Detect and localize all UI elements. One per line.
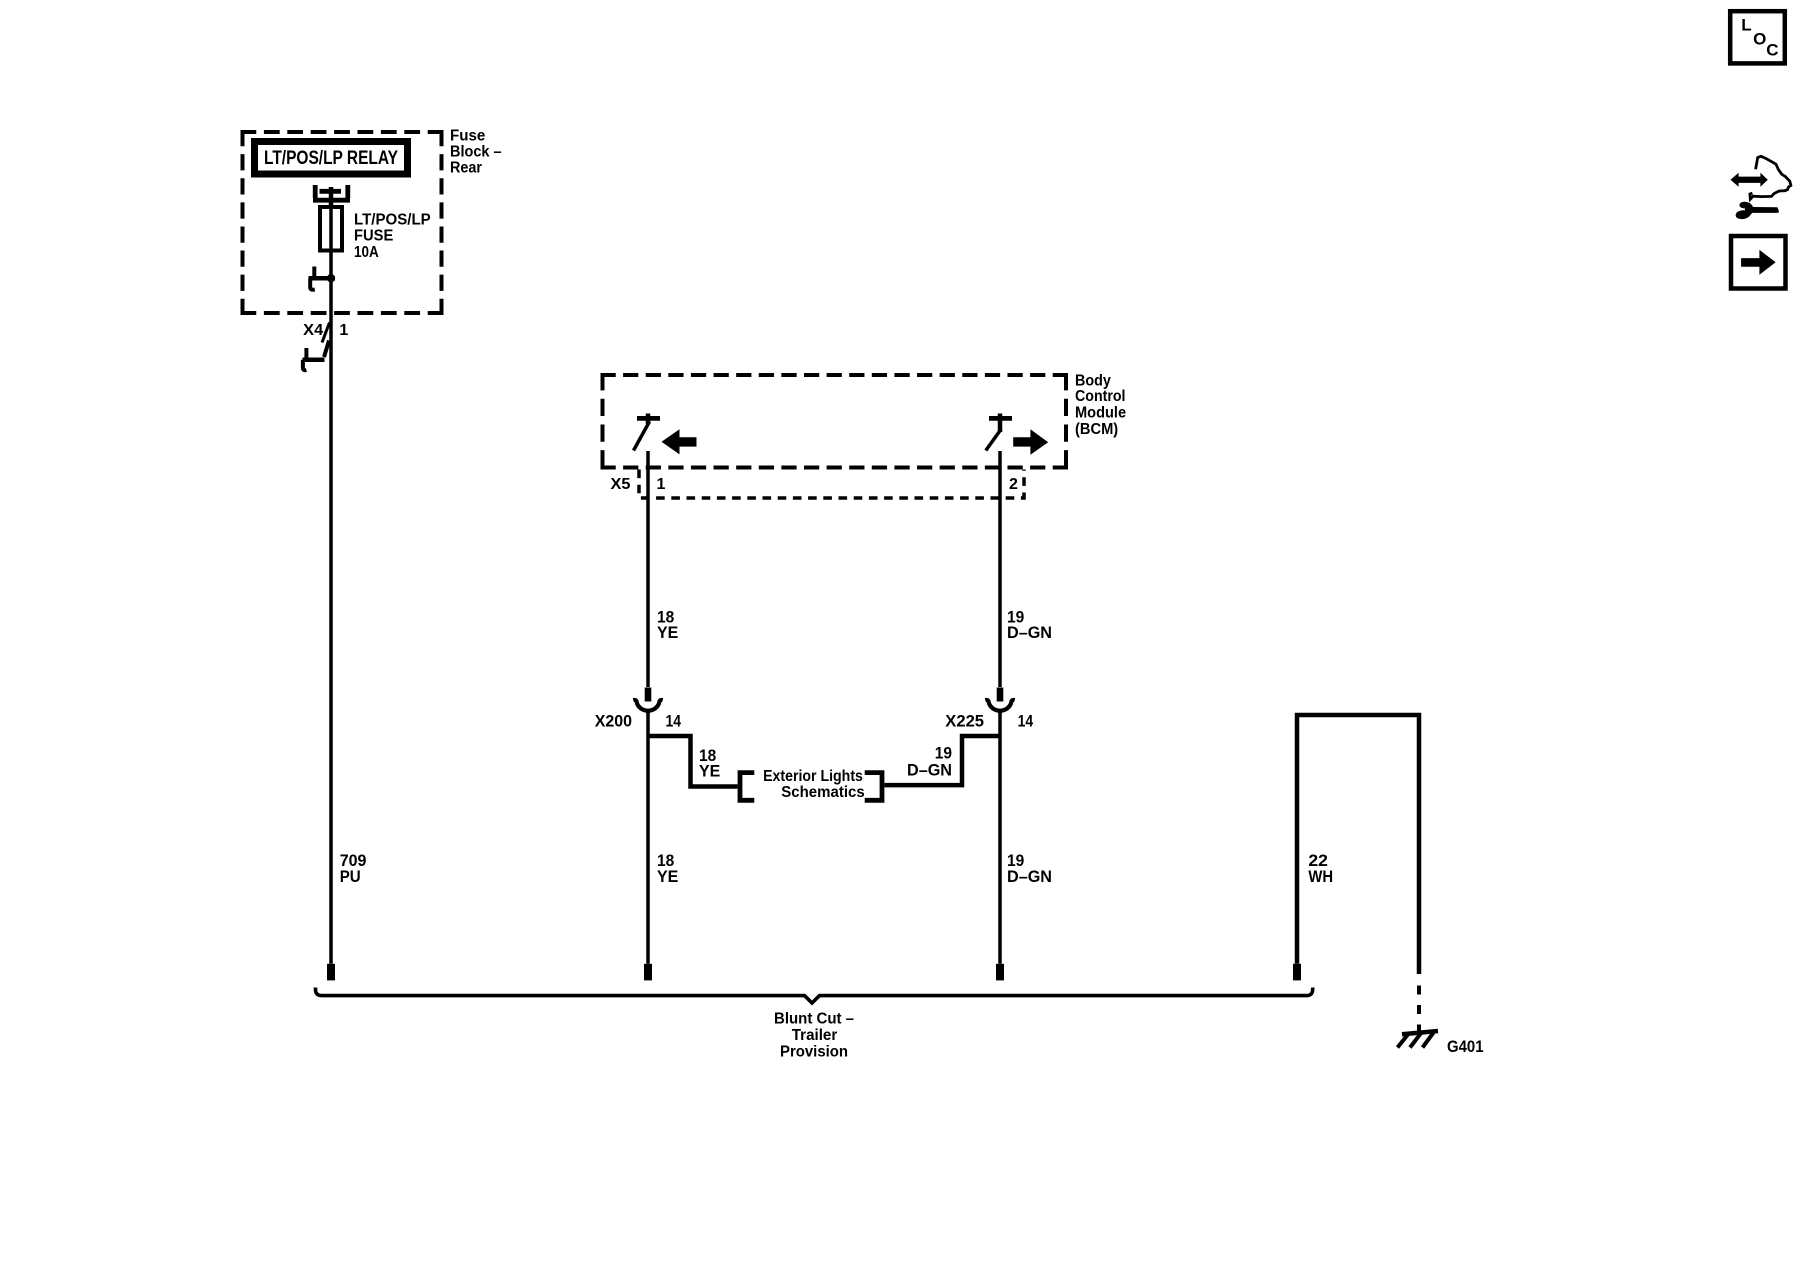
svg-text:C: C	[1766, 41, 1778, 60]
wire: 18 YE below X200 to blunt cut	[646, 712, 650, 964]
service/repair icon: wrench	[1736, 202, 1779, 219]
relay K: LT/POS/LP RELAY box	[255, 142, 408, 175]
svg-text:1: 1	[657, 476, 666, 493]
arrow (input) at BCM pin 1	[662, 429, 697, 454]
svg-text:Control: Control	[1075, 388, 1126, 405]
svg-text:D–GN: D–GN	[1007, 623, 1052, 642]
svg-text:Trailer: Trailer	[792, 1027, 838, 1044]
connector X5 dotted box	[639, 470, 1024, 499]
inline connector hook inside fuse block	[309, 267, 336, 290]
connector X4 pin 1 label and slash	[303, 322, 348, 343]
wire branch: 18 YE to Exterior Lights Schematics	[648, 736, 738, 787]
blunt cut cap on 19 D-GN wire	[996, 964, 1004, 981]
service/repair icon: double arrow	[1731, 173, 1768, 187]
svg-text:Body: Body	[1075, 372, 1111, 389]
svg-text:PU: PU	[340, 867, 361, 886]
svg-text:10A: 10A	[354, 244, 379, 261]
relay pin terminal (T-pin in U-clip)	[313, 185, 350, 208]
wire: 19 D-GN below X225 to blunt cut	[998, 712, 1002, 964]
svg-text:YE: YE	[699, 761, 720, 780]
svg-text:Exterior Lights: Exterior Lights	[763, 768, 863, 785]
svg-text:YE: YE	[657, 867, 678, 886]
fuse F: LT/POS/LP FUSE 10A	[320, 207, 431, 261]
svg-text:Fuse: Fuse	[450, 128, 485, 145]
svg-text:LT/POS/LP RELAY: LT/POS/LP RELAY	[264, 148, 398, 169]
svg-text:WH: WH	[1308, 867, 1333, 886]
arrow (output) at BCM pin 2	[1013, 429, 1048, 455]
svg-text:D–GN: D–GN	[907, 761, 952, 780]
LOC reference box icon	[1730, 11, 1785, 63]
svg-text:D–GN: D–GN	[1007, 867, 1052, 886]
svg-text:L: L	[1741, 16, 1751, 35]
label: Blunt Cut - Trailer Provision	[774, 1010, 854, 1060]
wire: 18 YE from BCM pin 1 to X200	[646, 451, 650, 687]
svg-text:Block –: Block –	[450, 144, 502, 161]
svg-text:Provision: Provision	[780, 1044, 848, 1061]
svg-text:(BCM): (BCM)	[1075, 421, 1118, 438]
body control module dashed box	[601, 373, 1069, 468]
svg-text:X225: X225	[945, 712, 984, 731]
svg-text:YE: YE	[657, 623, 678, 642]
wire: 22 WH loop to ground branch	[1297, 715, 1419, 974]
ground G401	[1398, 1025, 1439, 1048]
junction dot on wire at hook	[327, 274, 335, 282]
svg-text:G401: G401	[1447, 1037, 1484, 1056]
svg-text:14: 14	[1018, 712, 1034, 731]
fuse block label: Fuse Block - Rear	[450, 128, 502, 177]
forward/next arrow box icon	[1731, 236, 1786, 289]
svg-text:Schematics: Schematics	[781, 784, 865, 801]
wire branch: 19 D-GN from Exterior Lights Schematics to X225 wire	[885, 736, 1001, 785]
svg-text:O: O	[1753, 29, 1766, 48]
BCM label: Body Control Module (BCM)	[1075, 372, 1126, 438]
svg-text:X5: X5	[611, 476, 631, 493]
svg-text:X4: X4	[303, 322, 323, 339]
BCM pin 1 symbol	[634, 414, 661, 451]
blunt cut cap on 18 YE wire	[644, 964, 652, 981]
svg-text:FUSE: FUSE	[354, 228, 394, 245]
svg-text:X200: X200	[595, 712, 632, 731]
service/repair icon: panel outline	[1750, 156, 1791, 199]
svg-text:Blunt Cut –: Blunt Cut –	[774, 1010, 854, 1027]
svg-text:14: 14	[666, 712, 682, 731]
wire: 709 PU vertical from fuse to blunt cut	[329, 193, 333, 964]
BCM pin 2 symbol	[986, 414, 1012, 451]
connector X225 (pin + cup)	[985, 688, 1014, 711]
connector X200 (pin + cup)	[633, 688, 662, 711]
blunt cut cap on 22 WH wire	[1293, 964, 1301, 981]
inline connector hook at X4	[303, 341, 330, 371]
svg-text:Module: Module	[1075, 405, 1126, 422]
svg-text:1: 1	[339, 322, 348, 339]
svg-text:Rear: Rear	[450, 160, 482, 177]
fuse block rear dashed box	[241, 130, 444, 315]
dashed wire to ground	[1417, 986, 1421, 1033]
svg-text:LT/POS/LP: LT/POS/LP	[354, 212, 431, 229]
brace: blunt cut trailer provision	[315, 988, 1312, 1004]
svg-text:2: 2	[1009, 476, 1018, 493]
blunt cut cap on 709 PU wire	[327, 964, 335, 981]
exterior lights schematics reference brackets	[740, 768, 882, 801]
wire: 19 D-GN from BCM pin 2 to X225	[998, 451, 1002, 687]
